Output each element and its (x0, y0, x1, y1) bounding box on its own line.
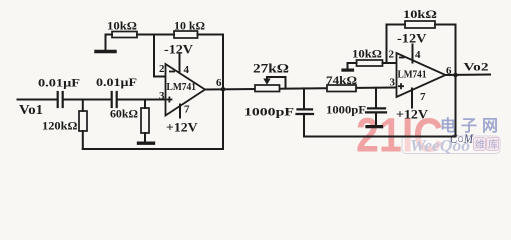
capacitor C2 0.01uF (112, 92, 117, 107)
resistor 10k (R1 top-left) (112, 32, 137, 38)
minus marker op1 (169, 71, 175, 73)
wire (435, 24, 456, 26)
pin7 wire (179, 105, 181, 118)
svg-text:60kΩ: 60kΩ (110, 107, 138, 121)
svg-text:7: 7 (184, 104, 190, 116)
capacitor 1000pF #1 (303, 88, 305, 108)
svg-text:10kΩ: 10kΩ (352, 47, 382, 61)
potentiometer 27k body (255, 85, 280, 92)
svg-text:6: 6 (216, 77, 222, 89)
svg-text:27kΩ: 27kΩ (253, 61, 289, 76)
svg-text:10kΩ: 10kΩ (107, 19, 137, 33)
minus marker op2 (399, 57, 405, 59)
svg-text:0.01μF: 0.01μF (38, 76, 80, 90)
wire (137, 34, 174, 36)
svg-text:0.01μF: 0.01μF (96, 75, 137, 89)
capacitor C1 0.01uF (58, 92, 63, 107)
svg-text:+12V: +12V (166, 120, 198, 135)
svg-text:3: 3 (390, 77, 396, 89)
svg-text:LM741: LM741 (398, 70, 427, 81)
wire (198, 34, 224, 36)
svg-text:1000pF: 1000pF (326, 105, 366, 117)
svg-text:120kΩ: 120kΩ (42, 119, 78, 133)
svg-text:-12V: -12V (397, 31, 427, 46)
svg-text:2: 2 (159, 63, 165, 75)
svg-text:1000pF: 1000pF (244, 105, 294, 119)
wire feedback vertical (222, 35, 224, 150)
svg-text:LM741: LM741 (167, 82, 197, 93)
watermark WeeQoo box (402, 136, 500, 154)
svg-text:4: 4 (184, 64, 190, 76)
svg-text:库: 库 (488, 138, 498, 151)
svg-text:10kΩ: 10kΩ (403, 7, 437, 21)
svg-text:74kΩ: 74kΩ (326, 73, 357, 87)
ground top-left (96, 50, 115, 53)
resistor 74k (327, 85, 356, 92)
wire pin2 op2 (383, 62, 397, 64)
wire input Vo1 (18, 99, 58, 101)
wire vertical feedback op2 (455, 25, 457, 137)
junction node Vo2 (453, 73, 458, 78)
wire inv2 vertical (386, 25, 388, 64)
resistor 10k (R2 top) (174, 31, 198, 38)
svg-text:C○M: C○M (450, 131, 474, 146)
wire bottom return to Vo2 node (304, 136, 456, 138)
op-amp U2 triangle (397, 53, 446, 97)
pin7 wire op2 (411, 89, 413, 108)
pin4 wire op2 (412, 45, 414, 63)
svg-text:3: 3 (159, 90, 165, 102)
wire output op1 (205, 88, 397, 90)
resistor R 60k vertical (144, 100, 146, 109)
ground stage2 10k (343, 68, 353, 71)
wire (106, 34, 113, 36)
wire inverting input drop (154, 35, 166, 77)
potentiometer wiper (267, 77, 286, 88)
ground under 1000pF #2 (367, 125, 382, 128)
wire node A (63, 99, 111, 101)
capacitor 1000pF #2 (375, 88, 377, 108)
resistor R 120k vertical (82, 100, 84, 112)
plus marker op2 (398, 85, 404, 87)
svg-text:+12V: +12V (396, 108, 428, 122)
watermark weiku boxes (474, 138, 499, 152)
wire output Vo2 (446, 74, 491, 77)
wire bottom feedback (83, 148, 223, 150)
svg-text:4: 4 (415, 49, 421, 61)
op-amp U1 triangle (166, 64, 206, 116)
svg-text:7: 7 (420, 91, 426, 103)
svg-text:-12V: -12V (164, 42, 194, 57)
svg-text:2: 2 (389, 49, 395, 61)
ground under 60k (139, 141, 154, 144)
svg-text:Vo1: Vo1 (19, 103, 43, 118)
svg-text:6: 6 (446, 65, 452, 77)
wire top stage2 (387, 24, 406, 26)
resistor 10k (stage2 feedback) (405, 21, 435, 28)
pin4 wire (179, 54, 181, 73)
wire to op-amp pin3 (117, 99, 166, 101)
resistor 10k (stage2 to ground) (357, 60, 383, 66)
svg-text:维: 维 (475, 138, 485, 151)
svg-text:Vo2: Vo2 (464, 60, 489, 74)
plus marker op1 (166, 99, 172, 101)
svg-text:10 kΩ: 10 kΩ (174, 19, 205, 33)
junction node op1 feedback (221, 87, 226, 92)
